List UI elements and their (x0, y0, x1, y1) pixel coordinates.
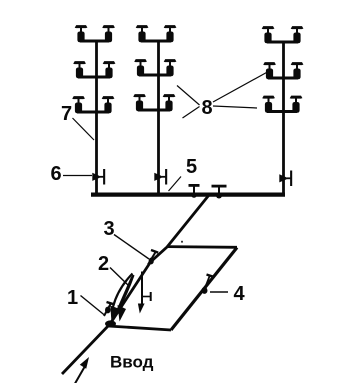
junction blob at parallelogram bottom-left (105, 320, 116, 327)
St3 level-3 left faucet (262, 96, 275, 113)
svg-text:7: 7 (61, 103, 72, 125)
leader 6 (63, 175, 92, 177)
valve on St2 bottom (154, 169, 167, 185)
leader 5 (169, 177, 182, 192)
lens arrowhead B (118, 305, 127, 322)
svg-text:1: 1 (67, 287, 78, 309)
valve on St1 bottom (92, 169, 105, 185)
svg-text:8: 8 (201, 97, 212, 119)
leader 8 lower-left (183, 107, 200, 119)
St3 level-2 branch bar (268, 77, 298, 80)
valve 4 on right edge (202, 275, 214, 294)
leader 8 upper-left (177, 86, 200, 106)
leader 8 lower-right (213, 106, 257, 108)
St1 level-3 left faucet (72, 96, 85, 113)
main horizontal distribution pipe (91, 193, 285, 197)
leader 3 (114, 235, 149, 260)
St3 level-2 left faucet (263, 62, 276, 79)
valve 1 on diagonal (104, 302, 114, 316)
lens arrowhead A (110, 306, 119, 323)
parallelogram bottom edge (108, 326, 171, 330)
St3 top right faucet (291, 26, 304, 43)
drain tap on drop pipe (142, 296, 150, 298)
riser St1 (left vertical) (95, 41, 98, 195)
St2 top right faucet (164, 25, 177, 42)
St2 level-2 right faucet (164, 59, 177, 76)
St1 level-3 right faucet (102, 96, 115, 113)
St1 level-2 right faucet (103, 61, 116, 78)
inlet flow direction arrow (75, 367, 85, 383)
St2 level-3 left faucet (133, 94, 146, 111)
svg-text:6: 6 (50, 163, 61, 185)
leader 1 (81, 296, 106, 316)
valve 3 on diagonal (148, 250, 158, 265)
lens inner line (117, 277, 133, 313)
St3 level-2 right faucet (291, 62, 304, 79)
svg-text:2: 2 (98, 253, 109, 275)
St3 level-3 branch bar (267, 110, 297, 113)
riser St2 (middle vertical) (157, 41, 160, 195)
St1 level-2 branch bar (78, 76, 110, 79)
St3 top left faucet (262, 26, 275, 43)
inlet diagonal pipe (polyline) (62, 195, 209, 374)
leader 2 (110, 268, 129, 286)
St1 level-2 left faucet (73, 61, 86, 78)
small speck near top edge (181, 241, 183, 243)
svg-text:Ввод: Ввод (110, 353, 154, 372)
drain drop pipe with down arrow (141, 272, 143, 307)
St2 top branch bar (141, 40, 171, 43)
St2 top left faucet (136, 25, 149, 42)
T symbol on pipe (left) (189, 184, 200, 198)
St3 level-3 right faucet (290, 96, 303, 113)
St1 top branch bar (80, 40, 109, 43)
T symbol on pipe (right, wider) (212, 185, 227, 199)
parallelogram right edge (171, 248, 237, 331)
St1 top right faucet (102, 25, 115, 42)
St2 level-2 left faucet (134, 59, 147, 76)
St2 level-3 right faucet (163, 94, 176, 111)
riser St3 (right vertical) (282, 42, 285, 194)
St1 top left faucet (75, 25, 88, 42)
St1 level-3 branch bar (77, 111, 109, 114)
leader 8 upper-right (213, 73, 267, 103)
St2 level-2 branch bar (139, 74, 171, 77)
leader 7 (73, 118, 95, 140)
water meter bypass lens (113, 274, 133, 308)
svg-text:5: 5 (186, 156, 197, 178)
leader 4 (210, 291, 228, 293)
St2 level-3 branch bar (138, 109, 170, 112)
parallelogram top edge (167, 245, 237, 248)
svg-text:3: 3 (103, 218, 114, 240)
svg-text:4: 4 (233, 283, 245, 305)
valve on St3 bottom (279, 171, 292, 187)
St3 top branch bar (267, 41, 298, 44)
